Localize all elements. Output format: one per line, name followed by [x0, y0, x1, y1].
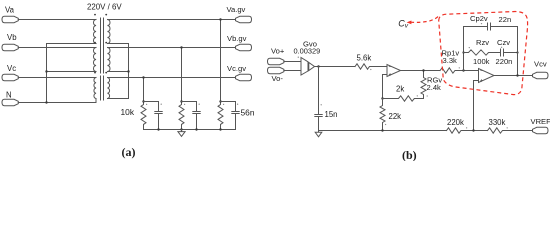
- wire neutral bus vertical: [46, 44, 48, 103]
- op-amp U1: [387, 65, 401, 77]
- label Va.gv: [227, 5, 246, 14]
- red leader line: [411, 16, 439, 23]
- svg-text:Va: Va: [5, 6, 15, 15]
- port Vcv: [533, 72, 549, 78]
- port Vc: [2, 74, 18, 80]
- label RGv: [427, 75, 442, 84]
- caption (a): [122, 145, 136, 159]
- svg-text:Cv: Cv: [398, 18, 409, 29]
- label Rp1v: [442, 49, 460, 58]
- svg-text:Vb: Vb: [7, 33, 17, 42]
- port Vo+: [268, 58, 284, 64]
- svg-text:220V / 6V: 220V / 6V: [87, 3, 122, 12]
- svg-text:3.3k: 3.3k: [443, 56, 458, 65]
- resistor 2k: [383, 96, 424, 101]
- label 220k: [447, 118, 464, 127]
- svg-text:2k: 2k: [396, 85, 404, 94]
- junction Rzv row left: [462, 51, 464, 53]
- wire feedback left vertical: [463, 27, 465, 71]
- wire U1 inverting input path: [383, 75, 388, 99]
- wire T1 secondary top to Va.gv: [108, 19, 236, 21]
- resistor 10k (RC1): [141, 100, 146, 129]
- resistor 330k: [488, 128, 533, 133]
- label Vo-: [272, 74, 284, 83]
- wire Vb to T2 primary: [18, 47, 96, 49]
- junction U1 node: [381, 97, 383, 99]
- port Va.gv: [236, 16, 252, 22]
- label 10k: [121, 107, 135, 117]
- junction secondary common T2: [127, 70, 129, 72]
- junction neutral-T2: [45, 70, 47, 72]
- label 330k: [489, 118, 506, 127]
- label Cp2v: [470, 14, 488, 23]
- svg-text:N: N: [6, 91, 12, 100]
- label 100k: [473, 57, 490, 66]
- svg-text:330k: 330k: [489, 118, 506, 127]
- junction neutral-N: [45, 101, 47, 103]
- label Vb: [7, 33, 17, 42]
- wire T3 secondary top to Vc.gv: [108, 77, 236, 79]
- junction Vb.gv tap: [180, 46, 182, 48]
- wire T2 secondary bottom: [108, 71, 129, 73]
- junction U2 ref tap: [472, 129, 474, 131]
- svg-text:(b): (b): [402, 148, 417, 161]
- transformer T3: [94, 72, 110, 100]
- caption (b): [402, 148, 417, 162]
- wire Vc.gv tap to RC1: [143, 78, 145, 102]
- wire down to capacitor 15n: [318, 67, 320, 115]
- junction rail C2: [195, 128, 197, 130]
- label 2k: [396, 85, 404, 94]
- svg-text:Rzv: Rzv: [476, 38, 489, 47]
- svg-text:VREF: VREF: [531, 117, 550, 126]
- capacitor 15n: [315, 115, 322, 131]
- svg-text:2.4k: 2.4k: [427, 83, 442, 92]
- transformer T2: [93, 42, 110, 73]
- label Rzv: [476, 38, 489, 47]
- red annotation box: [407, 12, 528, 95]
- label 56n: [241, 108, 255, 118]
- wire secondary common vertical: [128, 44, 130, 99]
- svg-text:22k: 22k: [389, 112, 402, 121]
- capacitor C2: [182, 102, 201, 130]
- junction rail R3: [219, 128, 221, 130]
- svg-text:10k: 10k: [121, 107, 135, 117]
- label Czv: [497, 38, 510, 47]
- svg-text:0.00329: 0.00329: [294, 47, 321, 56]
- svg-text:(a): (a): [122, 145, 136, 159]
- svg-text:Vo+: Vo+: [271, 47, 285, 56]
- wire Va.gv tap to RC3: [220, 20, 222, 102]
- label 22n: [499, 15, 512, 24]
- svg-text:15n: 15n: [325, 110, 338, 119]
- ground (a): [178, 130, 185, 137]
- wire feedback right vertical: [517, 27, 519, 76]
- resistor Rzv 100k: [464, 50, 501, 55]
- resistor 22k: [380, 99, 385, 131]
- wire N to T3 primary bottom: [18, 99, 96, 103]
- svg-text:Cp2v: Cp2v: [470, 14, 488, 23]
- junction rail C1: [157, 128, 159, 130]
- resistor R3 (RC3): [218, 100, 223, 129]
- label Vb.gv: [227, 34, 247, 43]
- wire U1 output: [401, 70, 441, 72]
- port Vb: [2, 44, 18, 50]
- wire T1 secondary bottom: [108, 43, 129, 45]
- svg-text:Vc.gv: Vc.gv: [227, 64, 246, 73]
- junction U2 output feedback: [516, 74, 518, 76]
- junction Va.gv tap: [219, 18, 221, 20]
- gain block Gvo: [301, 58, 315, 76]
- port Vc.gv: [236, 74, 252, 80]
- svg-text:Vc: Vc: [7, 64, 16, 73]
- label 15n: [325, 110, 338, 119]
- wire Cp2v row left: [464, 26, 488, 28]
- wire T2 primary bottom to neutral bus: [47, 71, 97, 73]
- port Va: [2, 16, 18, 22]
- svg-text:56n: 56n: [241, 108, 255, 118]
- resistor RGv 2.4k: [421, 69, 426, 98]
- label Gvo: [303, 40, 317, 49]
- resistor R2 (RC2): [179, 100, 184, 129]
- label Vc.gv: [227, 64, 246, 73]
- label 5.6k: [357, 53, 372, 62]
- resistor 220k: [447, 128, 488, 133]
- wire T2 secondary top to Vb.gv: [108, 47, 236, 49]
- wire T3 secondary bottom: [108, 98, 129, 100]
- svg-text:Vb.gv: Vb.gv: [227, 34, 247, 43]
- junction 22k bottom: [381, 129, 383, 131]
- wire gain block output: [315, 66, 356, 68]
- svg-text:22n: 22n: [499, 15, 512, 24]
- capacitor Cp2v 22n: [488, 23, 518, 30]
- port N: [2, 99, 18, 105]
- capacitor Czv 220n: [501, 49, 518, 56]
- wire bottom rail (b): [319, 130, 447, 132]
- label 220V / 6V: [87, 3, 122, 12]
- label Vo+: [271, 47, 285, 56]
- port Vo-: [268, 67, 284, 73]
- wire ground rail (a): [144, 129, 236, 131]
- svg-text:100k: 100k: [473, 57, 490, 66]
- wire T1 primary bottom to neutral bus: [47, 43, 97, 45]
- svg-text:5.6k: 5.6k: [357, 53, 372, 62]
- svg-text:Vcv: Vcv: [534, 60, 547, 69]
- wire U2 noninverting input: [474, 81, 479, 131]
- label Vcv: [534, 60, 547, 69]
- port Vb.gv: [236, 44, 252, 50]
- svg-text:220k: 220k: [447, 118, 464, 127]
- junction 15n tap: [317, 65, 319, 67]
- label Vc: [7, 64, 16, 73]
- wire Vb.gv tap to RC2: [181, 48, 183, 102]
- junction feedback left: [462, 69, 464, 71]
- red label Cv: [398, 18, 409, 29]
- capacitor C1: [144, 102, 163, 130]
- wire Vc to T3 primary: [18, 77, 96, 79]
- label N: [6, 91, 12, 100]
- svg-text:Vo-: Vo-: [272, 74, 284, 83]
- marker dots: [146, 23, 508, 129]
- resistor 5.6k: [355, 64, 387, 69]
- svg-text:Czv: Czv: [497, 38, 510, 47]
- label 3.3k: [443, 56, 458, 65]
- svg-text:Va.gv: Va.gv: [227, 5, 246, 14]
- label VREF: [531, 117, 550, 126]
- svg-text:220n: 220n: [496, 57, 513, 66]
- capacitor 56n (RC3): [221, 102, 240, 130]
- junction Vc.gv tap: [142, 76, 144, 78]
- wire Va to T1 primary: [18, 19, 96, 21]
- ground (b): [315, 131, 322, 137]
- label Va: [5, 6, 15, 15]
- port VREF: [533, 127, 549, 133]
- transformer T1: [93, 14, 110, 45]
- red arrowhead: [407, 21, 412, 25]
- wire U2 output to Vcv: [494, 75, 533, 77]
- junction Rzv row right: [516, 51, 518, 53]
- label 220n: [496, 57, 513, 66]
- junction rail R2: [180, 128, 182, 130]
- wire Vo- to gain block: [284, 70, 301, 72]
- label 22k: [389, 112, 402, 121]
- op-amp U2: [479, 69, 495, 83]
- resistor Rp1v 3.3k: [440, 68, 479, 73]
- wire Vo+ to gain block: [284, 61, 301, 63]
- label 2.4k: [427, 83, 442, 92]
- label 0.00329: [294, 47, 321, 56]
